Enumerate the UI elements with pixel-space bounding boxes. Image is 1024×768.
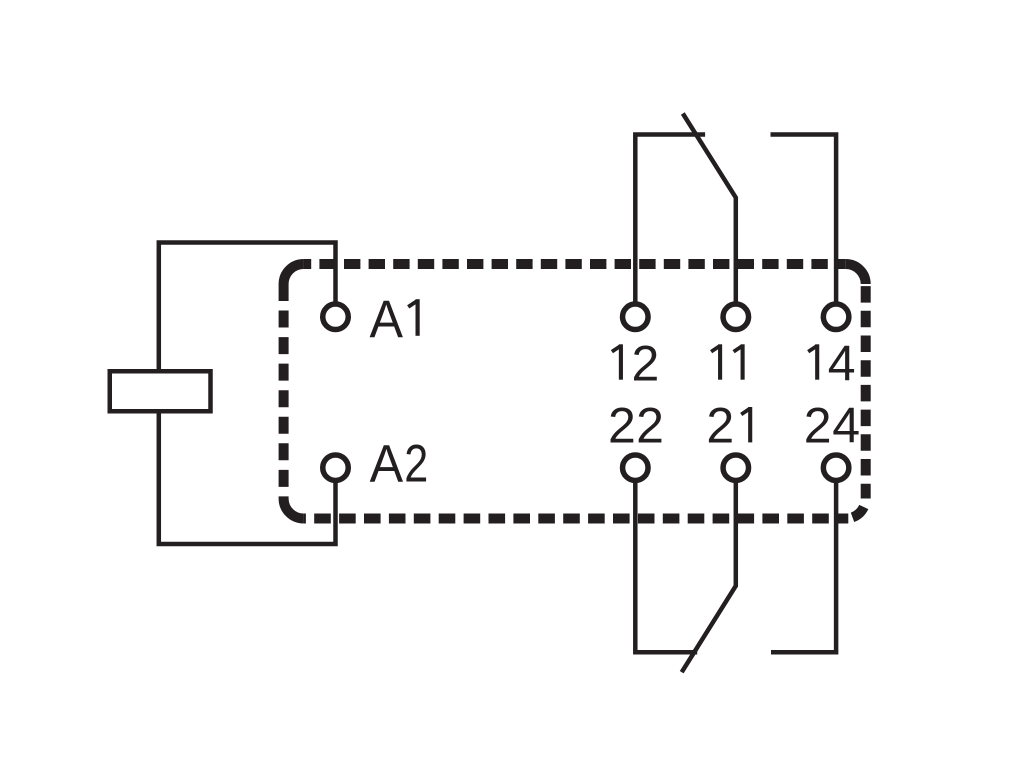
label A1 xyxy=(370,290,418,349)
svg-text:2: 2 xyxy=(804,398,832,454)
relay body outline (dashed box) xyxy=(284,264,866,519)
terminal 14 xyxy=(823,304,849,330)
svg-text:2: 2 xyxy=(404,435,428,494)
terminal 11 xyxy=(723,304,749,330)
wire coil top to A1 xyxy=(159,243,336,373)
svg-text:2: 2 xyxy=(706,398,734,454)
label 14 xyxy=(808,335,855,391)
wire coil bottom to A2 xyxy=(159,411,336,544)
terminal 24 xyxy=(823,455,849,481)
label 22 xyxy=(608,398,664,454)
label 11 xyxy=(711,344,743,379)
label 24 xyxy=(804,398,860,454)
wire contact 14 riser and NO bar xyxy=(771,135,837,305)
switch arm of pole 21 xyxy=(682,483,736,672)
terminal A2 xyxy=(323,455,349,481)
terminal A1 xyxy=(323,304,349,330)
wire contact 12 riser and NC bar xyxy=(635,135,705,305)
svg-text:A: A xyxy=(370,290,404,349)
svg-text:4: 4 xyxy=(828,335,856,391)
svg-text:4: 4 xyxy=(832,398,860,454)
terminal 12 xyxy=(623,304,649,330)
svg-text:2: 2 xyxy=(631,335,659,391)
wire contact 24 drop and NO bar xyxy=(771,483,836,652)
terminal 22 xyxy=(623,455,649,481)
terminal 21 xyxy=(723,455,749,481)
label 12 xyxy=(612,335,659,391)
svg-text:2: 2 xyxy=(636,398,664,454)
switch arm of pole 11 xyxy=(683,114,736,305)
coil L1 xyxy=(110,371,211,411)
label 21 xyxy=(706,398,750,454)
label A2 xyxy=(370,435,429,494)
wire contact 22 drop and NC bar xyxy=(635,483,697,652)
svg-text:A: A xyxy=(370,435,404,494)
svg-text:2: 2 xyxy=(608,398,636,454)
